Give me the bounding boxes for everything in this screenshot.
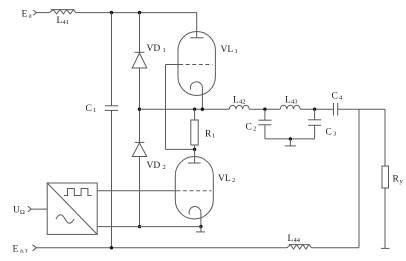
wire VD2 anode down to cathode wire [139,157,141,227]
svg-text:4: 4 [339,95,343,102]
wire VL2 anode lead [194,149,196,163]
svg-text:R: R [205,130,212,140]
node Ea terminal [33,10,36,15]
wire mid rail corner down to Ry [384,109,386,166]
junction dot mid rail / diode chain [138,108,141,111]
op-amp U2 tube VL2 envelope [175,157,213,220]
label VL1 [221,45,238,55]
svg-text:R: R [393,175,400,185]
capacitor C2 [258,109,271,139]
svg-text:1: 1 [212,133,215,140]
label C2 [246,123,257,133]
label VL2 [218,174,235,184]
resistor R1 [191,109,198,149]
label L42 [233,96,246,106]
svg-text:C: C [86,104,92,114]
wire right return riser [358,109,360,248]
cathode of VL1 [190,82,202,109]
label L43 [285,96,298,106]
svg-text:VL: VL [221,45,234,55]
wire top rail from Ea to VL1 anode corner [36,12,196,14]
svg-text:C: C [246,123,252,133]
junction dot mid rail / C3 [313,108,316,111]
svg-text:42: 42 [239,99,246,106]
label C4 [332,92,344,102]
wire VL1 grid wire down and right [166,65,195,150]
inductor L43 [280,105,300,109]
junction dot mid rail / VL1 cathode [201,108,204,111]
anode plate of VL1 [190,37,203,39]
svg-text:1: 1 [163,47,166,54]
wire C1 top lead [111,13,113,106]
label L44 [288,234,301,244]
svg-text:C: C [326,128,332,138]
label R1 [205,130,215,140]
inductor L41 [49,10,76,14]
wire box top output to VL2 grid [97,190,176,192]
capacitor C3 [308,109,321,139]
diode VD1 [132,52,147,68]
wire C1 bottom lead down to bottom rail [111,110,113,247]
wire VD1 top lead [139,13,141,53]
svg-text:a: a [29,13,32,20]
wire VD1 anode to mid rail [139,68,141,142]
junction dot top rail / VD1 [138,11,141,14]
square wave glyph [64,189,92,196]
svg-text:т: т [25,248,28,255]
node Eav terminal [33,245,37,251]
node U-omega terminal [28,206,31,212]
svg-text:VL: VL [218,174,231,184]
svg-text:44: 44 [294,237,301,244]
grid of VL2 (dashed) [176,190,211,192]
junction dot mid rail / C2 [263,108,266,111]
junction dot ground tap [289,137,292,140]
junction dot R1 bottom / VL2 anode [193,148,196,151]
label Ry [393,175,404,186]
svg-text:E: E [13,245,19,255]
svg-text:3: 3 [333,131,336,138]
wire bottom rail [37,247,360,249]
converter box (sine to square) [47,183,97,234]
diode VD2 [132,142,147,156]
ground under C2/C3 [285,139,296,146]
svg-text:2: 2 [232,177,235,184]
svg-text:43: 43 [291,99,298,106]
svg-text:1: 1 [235,48,238,55]
sine wave glyph [56,215,74,224]
svg-text:VD: VD [147,44,161,54]
grid of VL1 (dashed) [166,64,213,66]
junction dot VL2 cathode / ground [199,225,202,228]
wire box bottom output to VL2 cathode [97,226,201,228]
resistor Ry [381,166,390,248]
label U-omega [13,206,25,217]
capacitor C1 [105,106,118,111]
label L41 [57,16,70,26]
svg-text:2: 2 [163,164,166,171]
label VD1 [147,44,166,54]
capacitor C4 [334,103,338,116]
junction dot top rail / C1 [110,11,113,14]
junction dot bottom rail / C1 [110,246,113,249]
junction dot mid rail / R1 [193,108,196,111]
inductor L44 [287,245,312,249]
inductor L42 [229,105,249,109]
svg-text:1: 1 [93,107,96,114]
svg-text:VD: VD [147,161,161,171]
label VD2 [147,161,166,171]
cathode of VL2 [189,207,201,227]
svg-text:y: y [400,178,404,185]
svg-text:U: U [13,206,20,216]
svg-text:2: 2 [253,126,256,133]
wire U input [31,208,47,210]
label Ea [22,10,32,20]
svg-text:Ω: Ω [20,209,25,216]
wire VL1 anode lead [196,13,198,38]
wire C2-C3 bottom [265,138,315,140]
svg-text:E: E [22,10,28,20]
anode plate of VL2 [188,162,201,164]
ground under VL2 cathode [196,227,205,232]
label C3 [326,128,337,138]
label Eav [13,245,29,255]
label C1 [86,104,97,114]
svg-text:C: C [332,92,338,102]
op-amp U1 tube VL1 envelope [178,32,215,96]
svg-text:41: 41 [63,19,70,26]
junction dot VD2 / cathode wire [138,225,141,228]
wire mid rail [140,108,386,110]
